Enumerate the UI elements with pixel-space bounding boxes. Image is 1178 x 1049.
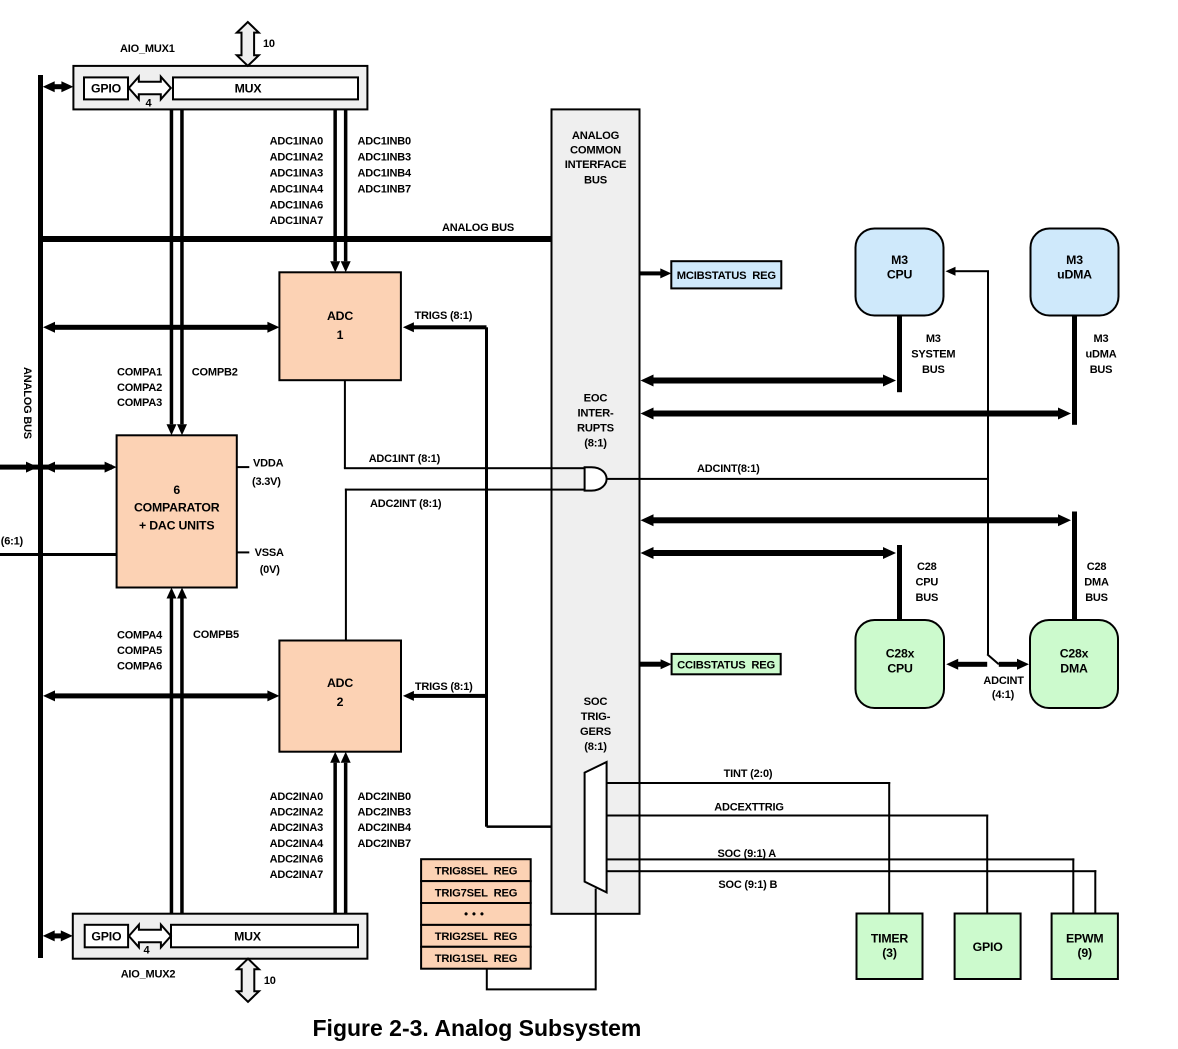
svg-text:CPU: CPU — [887, 662, 913, 676]
wire ADCINT arrow into M3 CPU — [946, 267, 990, 276]
svg-text:2: 2 — [337, 695, 344, 709]
svg-text:(3.3V): (3.3V) — [252, 476, 281, 488]
svg-text:ADCEXTTRIG: ADCEXTTRIG — [714, 802, 784, 814]
svg-text:COMPA6: COMPA6 — [117, 660, 162, 672]
wire AIO_MUX1 external hollow double arrow — [237, 22, 259, 66]
svg-text:COMPA3: COMPA3 — [117, 397, 162, 409]
svg-text:MUX: MUX — [235, 82, 263, 96]
block AIO_MUX2 MUX — [171, 925, 358, 948]
svg-text:TRIG1SEL REG: TRIG1SEL REG — [435, 953, 518, 965]
mux SOC trigger trapezoid — [585, 762, 607, 892]
svg-text:ADC2INA2: ADC2INA2 — [270, 807, 323, 819]
svg-text:ADC2INB7: ADC2INB7 — [358, 838, 411, 850]
block MCIBSTATUS REG — [671, 261, 781, 288]
svg-text:ANALOG BUS: ANALOG BUS — [442, 222, 514, 234]
block CCIBSTATUS REG — [672, 654, 781, 674]
svg-text:BUS: BUS — [1085, 592, 1108, 604]
svg-text:BUS: BUS — [1090, 364, 1113, 376]
block TRIG2SEL REG — [421, 925, 531, 947]
node ADCINT (4:1) label — [983, 675, 1024, 701]
svg-text:TRIG-: TRIG- — [581, 711, 611, 723]
svg-text:ADC2INB0: ADC2INB0 — [358, 791, 411, 803]
wire bus to ADC1 arrow — [43, 322, 279, 333]
block C28x DMA — [1030, 620, 1118, 708]
svg-text:ADC1INA0: ADC1INA0 — [270, 136, 323, 148]
svg-text:C28x: C28x — [886, 647, 915, 661]
svg-text:BUS: BUS — [915, 592, 938, 604]
wire ADC1 input pair — [330, 109, 351, 272]
svg-text:uDMA: uDMA — [1057, 268, 1092, 282]
svg-text:COMPARATOR: COMPARATOR — [134, 501, 220, 515]
svg-text:AIO_MUX1: AIO_MUX1 — [120, 43, 175, 55]
svg-text:ADC2INA0: ADC2INA0 — [270, 791, 323, 803]
svg-text:ADC1INA6: ADC1INA6 — [270, 199, 323, 211]
wire TRIGS arrow into ADC1 — [403, 322, 487, 332]
block comparator 6 COMPARATOR + DAC UNITS — [117, 435, 237, 587]
svg-text:DMA: DMA — [1084, 577, 1109, 589]
svg-text:(0V): (0V) — [260, 564, 281, 576]
svg-text:INTERFACE: INTERFACE — [565, 159, 627, 171]
node ADC2INB labels — [358, 791, 412, 850]
gate EOC AND gate — [585, 467, 607, 490]
wire bus to AIO_MUX1 GPIO double arrow — [43, 81, 74, 92]
svg-text:BUS: BUS — [922, 364, 945, 376]
wire arrow to C28 DMA BUS — [641, 514, 1072, 526]
wire M3 uDMA BUS vertical — [1072, 316, 1077, 425]
svg-text:TRIG8SEL REG: TRIG8SEL REG — [435, 865, 518, 877]
wire EOC arrow to M3 SYSTEM BUS — [641, 375, 897, 387]
block ANALOG COMMON INTERFACE BUS column — [552, 109, 640, 913]
svg-text:COMPB5: COMPB5 — [193, 629, 239, 641]
wire arrow to C28 CPU BUS — [641, 547, 897, 559]
svg-text:ADCINT: ADCINT — [983, 675, 1024, 687]
node C28 DMA BUS label — [1084, 561, 1109, 604]
wire ANALOG BUS left vertical — [38, 75, 43, 958]
svg-text:ADC2INA6: ADC2INA6 — [270, 853, 323, 865]
svg-text:uDMA: uDMA — [1086, 349, 1117, 361]
block M3 uDMA — [1031, 229, 1119, 316]
node VDDA pin — [237, 458, 284, 488]
svg-text:ADCINT(8:1): ADCINT(8:1) — [697, 463, 760, 475]
svg-text:GPIO: GPIO — [973, 940, 1004, 954]
wire bus to AIO_MUX2 GPIO double arrow — [43, 930, 73, 941]
wire ADCINT(8:1) output — [607, 478, 988, 480]
node ADC2INA labels — [270, 791, 324, 881]
block AIO_MUX1 MUX — [173, 77, 358, 99]
svg-text:10: 10 — [264, 975, 276, 987]
svg-text:+ DAC UNITS: + DAC UNITS — [139, 519, 214, 533]
svg-text:CPU: CPU — [887, 268, 913, 282]
svg-text:ANALOG: ANALOG — [572, 130, 620, 142]
svg-text:ADC1INB7: ADC1INB7 — [358, 183, 411, 195]
svg-text:ADC2INB4: ADC2INB4 — [358, 822, 412, 834]
wire GPIO-MUX hollow double arrow bottom — [129, 925, 171, 948]
svg-text:GPIO: GPIO — [91, 82, 122, 96]
svg-text:ADC1INB4: ADC1INB4 — [358, 168, 412, 180]
wire arrow to CCIBSTATUS — [640, 659, 672, 669]
svg-text:C28: C28 — [917, 561, 937, 573]
svg-text:COMPB2: COMPB2 — [192, 367, 238, 379]
block M3 CPU — [856, 229, 944, 316]
svg-text:TRIG2SEL REG: TRIG2SEL REG — [435, 931, 518, 943]
wire ANALOG BUS horizontal — [38, 236, 552, 242]
svg-text:M3: M3 — [926, 333, 941, 345]
svg-text:CPU: CPU — [915, 577, 938, 589]
svg-text:ADC1INA3: ADC1INA3 — [270, 168, 323, 180]
svg-text:BUS: BUS — [584, 174, 608, 186]
svg-text:VSSA: VSSA — [255, 547, 284, 559]
svg-text:6: 6 — [173, 483, 180, 497]
svg-text:(9): (9) — [1077, 946, 1092, 960]
svg-text:EOC: EOC — [584, 392, 608, 404]
block AIO_MUX1 GPIO — [84, 77, 128, 99]
wire TRIGS arrow into ADC2 — [403, 691, 487, 701]
svg-text:COMPA4: COMPA4 — [117, 629, 163, 641]
svg-text:•••: ••• — [464, 909, 488, 921]
block ADC1 — [279, 272, 401, 380]
svg-text:ADC1INB0: ADC1INB0 — [358, 136, 411, 148]
svg-text:ADC1INA7: ADC1INA7 — [270, 215, 323, 227]
block AIO_MUX1 outer — [73, 66, 367, 110]
wire C28 DMA BUS vertical — [1072, 512, 1077, 621]
svg-text:ADC2INA3: ADC2INA3 — [270, 822, 323, 834]
svg-text:(4:1): (4:1) — [992, 689, 1015, 701]
svg-text:ADC: ADC — [327, 676, 353, 690]
node SOC TRIGGERS label — [580, 696, 612, 753]
svg-text:CCIBSTATUS REG: CCIBSTATUS REG — [677, 659, 775, 671]
svg-text:ADC: ADC — [327, 309, 353, 323]
svg-text:TINT (2:0): TINT (2:0) — [724, 768, 773, 780]
svg-text:VDDA: VDDA — [253, 458, 284, 470]
svg-text:ADC2INA4: ADC2INA4 — [270, 838, 324, 850]
svg-text:M3: M3 — [1066, 253, 1083, 267]
svg-text:SYSTEM: SYSTEM — [911, 349, 955, 361]
wire bus to ADC2 arrow — [43, 690, 279, 701]
node VSSA pin — [237, 547, 284, 576]
svg-text:C28: C28 — [1087, 561, 1107, 573]
svg-text:ADC1INT (8:1): ADC1INT (8:1) — [369, 453, 441, 465]
wire comparator pair lower — [167, 588, 188, 914]
wire ADCINT switch diagonal — [987, 654, 999, 664]
svg-text:RUPTS: RUPTS — [577, 423, 615, 435]
svg-text:SOC (9:1) B: SOC (9:1) B — [718, 879, 777, 891]
block GPIO peripheral — [955, 914, 1021, 980]
block ADC2 — [279, 641, 401, 752]
wire TRIGSEL to mux feed — [487, 889, 596, 990]
wire TRIGS vertical — [485, 327, 488, 826]
wire AIO_MUX2 external hollow double arrow — [237, 959, 259, 1002]
wire ADC1INT — [344, 380, 585, 469]
wire comparator pair upper — [167, 109, 188, 435]
wire M3 SYSTEM BUS vertical — [897, 316, 902, 393]
wire SOC (9:1) A — [607, 858, 1075, 913]
svg-text:MUX: MUX — [234, 929, 262, 943]
svg-text:COMPA5: COMPA5 — [117, 645, 162, 657]
svg-text:COMMON: COMMON — [570, 145, 621, 157]
svg-text:10: 10 — [263, 38, 275, 50]
svg-text:COMPA1: COMPA1 — [117, 367, 162, 379]
svg-text:SOC (9:1) A: SOC (9:1) A — [718, 848, 777, 860]
wire left edge to comparator arrow — [0, 462, 117, 473]
block EPWM (9) — [1052, 914, 1118, 980]
svg-text:ANALOG BUS: ANALOG BUS — [21, 367, 33, 439]
svg-text:M3: M3 — [1094, 333, 1109, 345]
block AIO_MUX2 GPIO — [85, 925, 128, 948]
svg-text:ADC2INT (8:1): ADC2INT (8:1) — [370, 498, 442, 510]
svg-text:SOC: SOC — [584, 696, 608, 708]
svg-text:TRIG7SEL REG: TRIG7SEL REG — [435, 887, 518, 899]
wire TRIGS feed to mux — [487, 825, 585, 828]
node ADC1INA labels — [270, 136, 324, 228]
svg-text:TRIGS (8:1): TRIGS (8:1) — [415, 310, 473, 322]
svg-text:AIO_MUX2: AIO_MUX2 — [121, 969, 176, 981]
svg-text:GERS: GERS — [580, 726, 612, 738]
wire TINT (2:0) — [607, 782, 891, 914]
svg-text:EPWM: EPWM — [1066, 932, 1103, 946]
svg-text:ADC2INA7: ADC2INA7 — [270, 869, 323, 881]
svg-text:ADC2INB3: ADC2INB3 — [358, 807, 411, 819]
wire ADC2INT — [345, 489, 585, 641]
node COMPA1-3 labels — [117, 367, 162, 410]
svg-text:(3): (3) — [882, 946, 897, 960]
svg-text:(6:1): (6:1) — [1, 536, 24, 548]
block TIMER (3) — [857, 914, 923, 980]
wire ADCINT vertical to switch — [987, 271, 989, 654]
svg-text:MCIBSTATUS REG: MCIBSTATUS REG — [677, 270, 777, 282]
wire ADCEXTTRIG — [607, 815, 989, 914]
svg-text:(8:1): (8:1) — [584, 741, 607, 753]
node COMPA4-6 labels — [117, 629, 163, 672]
wire left edge (6:1) line — [0, 553, 117, 556]
node EOC INTERRUPTS label — [577, 392, 615, 449]
block TRIG1SEL REG — [421, 947, 531, 969]
svg-text:COMPA2: COMPA2 — [117, 382, 162, 394]
svg-text:ADC1INA2: ADC1INA2 — [270, 152, 323, 164]
svg-text:(8:1): (8:1) — [584, 437, 607, 449]
block TRIG dots row — [421, 903, 531, 925]
svg-text:GPIO: GPIO — [91, 929, 122, 943]
node ADC1INB labels — [358, 136, 412, 196]
wire C28 CPU BUS vertical — [897, 545, 902, 620]
svg-text:Figure 2-3. Analog Subsystem: Figure 2-3. Analog Subsystem — [313, 1015, 642, 1041]
svg-text:M3: M3 — [891, 253, 908, 267]
wire EOC arrow to M3 uDMA BUS — [641, 408, 1072, 420]
svg-text:ADC1INB3: ADC1INB3 — [358, 152, 411, 164]
svg-text:TRIGS (8:1): TRIGS (8:1) — [415, 681, 473, 693]
svg-text:TIMER: TIMER — [871, 932, 909, 946]
svg-text:INTER-: INTER- — [577, 408, 614, 420]
node C28 CPU BUS label — [915, 561, 938, 604]
svg-text:C28x: C28x — [1060, 647, 1089, 661]
wire ADCINT arrow to C28x CPU — [946, 659, 987, 670]
wire SOC (9:1) B — [607, 870, 1097, 913]
block TRIG7SEL REG — [421, 881, 531, 903]
svg-text:1: 1 — [337, 328, 344, 342]
block TRIG8SEL REG — [421, 859, 531, 881]
block AIO_MUX2 outer — [73, 914, 368, 959]
node M3 uDMA BUS label — [1086, 333, 1117, 376]
node M3 SYSTEM BUS label — [911, 333, 955, 376]
svg-text:DMA: DMA — [1060, 662, 1088, 676]
block C28x CPU — [856, 620, 945, 708]
wire ADCINT arrow to C28x DMA — [999, 659, 1029, 670]
wire ADC2 input pair — [330, 752, 351, 914]
svg-text:ADC1INA4: ADC1INA4 — [270, 183, 324, 195]
wire arrow to MCIBSTATUS — [640, 268, 672, 278]
wire GPIO-MUX hollow double arrow top — [129, 77, 171, 100]
